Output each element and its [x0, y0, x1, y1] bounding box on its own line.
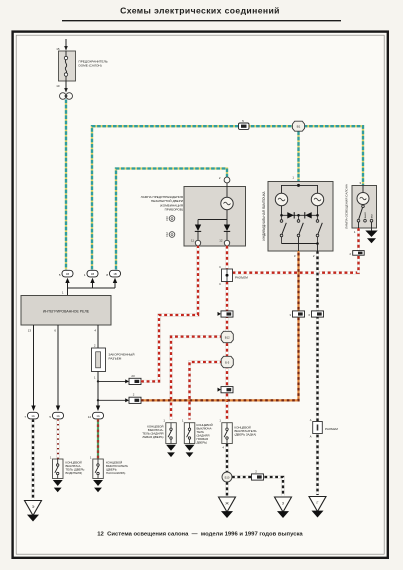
svg-text:А: А: [310, 418, 312, 422]
wire junction B10 down to ground: [225, 482, 228, 496]
junction B12 octagon: [221, 331, 233, 342]
rear-right door limit switch: [182, 419, 213, 445]
svg-text:13: 13: [28, 329, 32, 333]
wire junction B12 to rear-left door switch: [171, 337, 223, 420]
diode D3: [287, 212, 294, 218]
arrows into relay pills: [65, 278, 69, 283]
interior lamp box: [345, 181, 377, 229]
diode rail: [280, 206, 319, 217]
wire fuse to relay connector (vertical x=66): [65, 100, 67, 270]
svg-text:ЛЕВАЯ ДВЕРЬ): ЛЕВАЯ ДВЕРЬ): [142, 435, 163, 439]
wire individual lamp pin 2 to ground: [316, 251, 319, 495]
svg-text:ЛАМПА ОСВЕЩЕНИЯ САЛОНА: ЛАМПА ОСВЕЩЕНИЯ САЛОНА: [345, 184, 349, 229]
svg-text:РАЗЪЕМ: РАЗЪЕМ: [235, 276, 248, 280]
ground under B10 (open triangle): [219, 497, 236, 518]
relay pin 4 wire: [94, 325, 98, 348]
connector on orange wire y311: [290, 311, 305, 317]
ground under interior lamp: [365, 231, 377, 244]
diode D2: [224, 225, 230, 241]
svg-text:1А: 1А: [31, 414, 34, 418]
door warning lamp box (combination meter): [141, 176, 246, 246]
pill connector 2: [84, 270, 98, 277]
svg-text:1В: 1В: [66, 272, 69, 276]
back door limit switch: [219, 419, 256, 450]
svg-text:10: 10: [56, 84, 60, 88]
wire razyem across to interior lamp: [233, 251, 359, 273]
svg-text:ПРИБОРОВ): ПРИБОРОВ): [165, 208, 183, 212]
wire relay to interior lamps (x=92 up, across y=126, down x=363): [92, 126, 363, 269]
svg-text:Б-5: Б-5: [225, 360, 230, 364]
pill connector 1: [59, 270, 73, 277]
lamp in warning box: [221, 197, 233, 209]
wire black-white to ground (from pin 13): [31, 419, 34, 498]
ground for individual lamp black wire (open triangle): [309, 497, 326, 518]
svg-text:11: 11: [191, 239, 194, 243]
connector 23: [129, 374, 141, 385]
bus wire to relay pin 1: [68, 288, 116, 296]
branch wire to connector 23: [97, 379, 129, 383]
wire warning lamp pin 12 down: [226, 246, 229, 269]
svg-text:ВЫКЛ: ВЫКЛ: [365, 212, 367, 219]
connector 2 on bottom black wire: [252, 469, 264, 480]
wire back door switch to ground junction: [225, 444, 228, 472]
ground under passenger switch: [93, 480, 103, 492]
relay pin 13 wire: [28, 325, 36, 411]
integrated relay box: [21, 296, 111, 326]
ground under rear-left switch: [166, 445, 176, 457]
pin 12 terminal: [219, 239, 229, 246]
relay pin 6 wire: [54, 325, 60, 411]
svg-text:С: С: [219, 265, 221, 269]
wire connector 2 to individual lamp pin 3: [141, 251, 299, 400]
svg-text:1В: 1В: [91, 272, 94, 276]
wire interior lamp pin 1 stub: [357, 228, 360, 273]
fuse output connector (double ring): [60, 93, 73, 100]
ground E1 (open triangle): [25, 501, 42, 522]
connector 2: [129, 393, 141, 404]
svg-text:А: А: [310, 435, 312, 439]
connector on teal wire (pill): [239, 119, 250, 130]
svg-text:12: 12: [219, 239, 223, 243]
svg-text:ПАССАЖИРА): ПАССАЖИРА): [106, 471, 125, 475]
wire junction B10 right to ground: [232, 477, 283, 496]
svg-text:ВОДИТЕЛЯ): ВОДИТЕЛЯ): [66, 471, 83, 475]
svg-text:1В: 1В: [113, 272, 116, 276]
svg-text:ДВЕРЬ): ДВЕРЬ): [197, 441, 208, 445]
connector on black wire y311: [309, 311, 324, 317]
junction B1 octagon: [292, 121, 304, 131]
relay output oval connector 14: [88, 412, 104, 419]
wiring to diodes: [198, 210, 227, 225]
wire junction B5 to rear-right door switch: [190, 362, 223, 420]
switches in individual lamp box: [280, 215, 322, 258]
svg-text:12 Система освещения салона: 12 Система освещения салона — модели 199…: [97, 532, 303, 538]
svg-text:С: С: [219, 282, 221, 286]
svg-text:Э: Э: [32, 505, 35, 509]
diode D4: [305, 212, 312, 218]
junction B10 circle: [222, 472, 232, 482]
driver door limit switch: [50, 456, 85, 479]
fuse F DOME: [56, 39, 107, 93]
svg-text:1А: 1А: [56, 414, 59, 418]
pin 11 terminal: [191, 239, 201, 246]
connector marks C10 C12: [165, 216, 175, 238]
svg-text:РАЗЪЕМ: РАЗЪЕМ: [109, 357, 122, 361]
wire junction B1 down to individual lamp: [297, 126, 299, 184]
branch wire to connector 2: [97, 398, 129, 402]
switch in interior lamp box: [354, 205, 374, 234]
shorted connector: [92, 348, 135, 380]
svg-text:С12: С12: [165, 232, 169, 237]
connector 2 on interior lamp red wire: [350, 251, 365, 256]
wire razyem to junction chain: [226, 282, 229, 420]
svg-text:14: 14: [88, 415, 92, 419]
connector on red chain y389: [218, 387, 234, 393]
wire connector 23 to warning lamp pin 11: [141, 246, 198, 382]
ground under rear-right switch: [185, 445, 195, 457]
relay output oval connector 7: [24, 412, 38, 419]
lamp L2: [311, 193, 323, 205]
wire white-red dotted to driver door switch: [57, 419, 60, 459]
svg-text:Схемы электрических соединений: Схемы электрических соединений: [120, 6, 280, 16]
relay input pill connectors: [59, 270, 121, 295]
lamp L1: [275, 193, 287, 205]
svg-text:ИНТЕГРИРОВАННОЕ РЕЛЕ: ИНТЕГРИРОВАННОЕ РЕЛЕ: [43, 309, 90, 313]
pill connector 3: [106, 270, 120, 277]
ground under driver switch: [53, 480, 63, 492]
ground right of B10 (open triangle): [275, 497, 292, 518]
svg-text:В1: В1: [297, 125, 301, 129]
wire green-red to passenger door switch: [97, 419, 99, 459]
svg-text:DOME (САЛОН): DOME (САЛОН): [79, 64, 102, 68]
rear-left door limit switch: [142, 419, 176, 444]
wire relay to door warning lamp (x=116 up, across y=168.5, down x=227): [116, 169, 227, 270]
individual lamp box: [262, 176, 333, 252]
svg-text:С10: С10: [165, 216, 169, 221]
svg-text:ИНДИВИДУАЛЬНАЯ ЛАМПОЧКА: ИНДИВИДУАЛЬНАЯ ЛАМПОЧКА: [262, 191, 266, 241]
lamp L3: [357, 193, 369, 205]
connector razyem on black wire: [310, 418, 339, 439]
wire below shorted connector: [96, 372, 100, 412]
svg-text:1А: 1А: [96, 414, 99, 418]
svg-text:РАЗЪЕМ: РАЗЪЕМ: [325, 427, 338, 431]
connector razyem on pin12 wire: [219, 265, 248, 286]
svg-text:(ДВЕРЬ ЗАДКА): (ДВЕРЬ ЗАДКА): [235, 433, 257, 437]
junction B5 octagon: [221, 356, 233, 367]
svg-text:Б10: Б10: [225, 475, 230, 479]
title rule: [62, 20, 341, 22]
connector on red chain y311: [218, 311, 234, 317]
svg-text:В12: В12: [225, 335, 230, 339]
diode D1: [195, 225, 201, 241]
passenger door limit switch: [90, 456, 128, 479]
svg-text:ВКЛ: ВКЛ: [372, 214, 374, 219]
svg-text:Г: Г: [317, 501, 319, 505]
svg-text:З: З: [282, 502, 284, 506]
relay output oval connector 5: [49, 412, 63, 419]
svg-text:23: 23: [131, 374, 135, 378]
svg-text:15: 15: [56, 47, 60, 51]
